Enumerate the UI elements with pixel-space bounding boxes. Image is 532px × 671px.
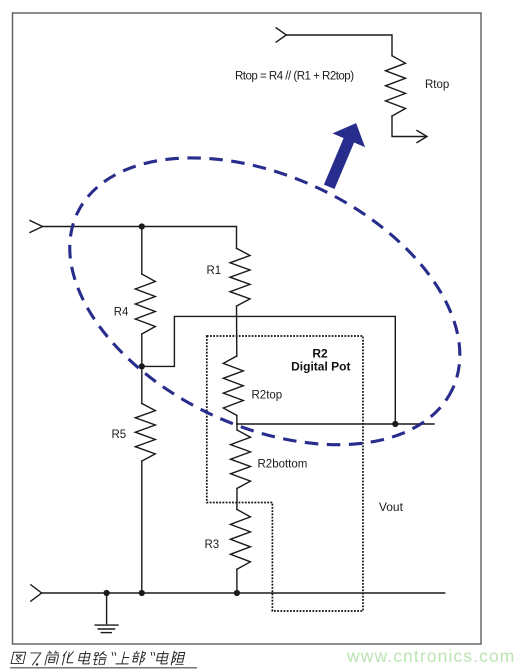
svg-text:R5: R5	[112, 429, 127, 441]
svg-text:R2: R2	[312, 347, 328, 361]
svg-text:Rtop: Rtop	[425, 79, 449, 91]
svg-text:Digital Pot: Digital Pot	[291, 360, 350, 374]
svg-text:Vout: Vout	[379, 500, 404, 514]
svg-text:R4: R4	[114, 307, 129, 319]
svg-text:R2bottom: R2bottom	[258, 459, 308, 471]
svg-text:R2top: R2top	[252, 390, 283, 402]
svg-text:www.cntronics.com: www.cntronics.com	[346, 646, 515, 666]
svg-text:Rtop = R4 // (R1 + R2top): Rtop = R4 // (R1 + R2top)	[235, 71, 354, 83]
svg-text:R3: R3	[205, 539, 220, 551]
svg-text:R1: R1	[207, 265, 222, 277]
